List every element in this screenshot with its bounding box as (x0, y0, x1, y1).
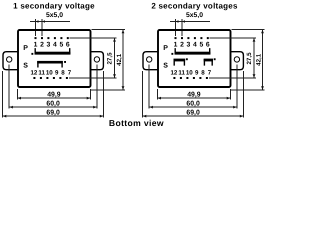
pin numbers 12-7 (right) (170, 69, 211, 76)
svg-text:5: 5 (200, 42, 204, 49)
dimension 42,1 (right) (256, 30, 264, 90)
svg-text:Bottom view: Bottom view (109, 118, 164, 128)
svg-text:60,0: 60,0 (186, 100, 200, 107)
extension line pin row 2 level (left) (69, 77, 117, 79)
pin 2 pad (right) (181, 37, 183, 39)
pin 1 pad (right) (175, 37, 177, 39)
svg-text:2 secondary voltages: 2 secondary voltages (151, 1, 238, 10)
svg-text:3: 3 (47, 42, 51, 49)
pin 7 pad (left) (66, 77, 68, 79)
svg-text:10: 10 (46, 69, 53, 76)
svg-text:49,9: 49,9 (47, 91, 61, 98)
svg-text:S: S (163, 62, 168, 69)
svg-text:69,0: 69,0 (186, 109, 200, 116)
pin 5 pad (left) (60, 37, 62, 39)
dimension 5x5,0 (right) (170, 12, 210, 36)
mounting hole left (right) (147, 57, 152, 62)
extension line pin row 1 level (right) (210, 37, 257, 39)
svg-text:2: 2 (40, 42, 44, 49)
svg-text:12: 12 (170, 69, 177, 76)
svg-text:5x5,0: 5x5,0 (46, 12, 63, 19)
svg-text:5: 5 (60, 42, 64, 49)
dimension 49,9 (right) (157, 91, 230, 99)
extension lines bottom dims (right) (143, 65, 244, 118)
pin numbers 1-6 (left) (34, 42, 70, 49)
svg-text:69,0: 69,0 (46, 109, 60, 116)
svg-text:42,1: 42,1 (256, 53, 263, 66)
extension lines bottom dims (left) (3, 65, 104, 118)
pin 2 pad (left) (41, 37, 43, 39)
pin 12 pad (left) (33, 77, 35, 79)
svg-text:42,1: 42,1 (116, 53, 123, 66)
svg-text:4: 4 (193, 42, 197, 49)
dimension 27,5 (left) (106, 38, 116, 78)
pin 9 pad (left) (53, 77, 55, 79)
svg-text:60,0: 60,0 (46, 100, 60, 107)
svg-text:6: 6 (66, 42, 70, 49)
svg-text:5x5,0: 5x5,0 (186, 12, 203, 19)
secondary S2 polarity dot (right) (214, 58, 216, 60)
mounting ear right (left) (90, 52, 103, 70)
primary winding P bracket pins 1-6 (left) (35, 48, 69, 54)
mounting hole right (left) (94, 57, 99, 62)
pin 8 pad (right) (199, 77, 201, 79)
svg-text:8: 8 (201, 69, 205, 76)
pin numbers 1-6 (right) (174, 42, 210, 49)
svg-text:9: 9 (195, 69, 199, 76)
secondary winding S1 bracket (right) (174, 60, 184, 66)
svg-text:1 secondary voltage: 1 secondary voltage (13, 1, 95, 10)
svg-text:27,5: 27,5 (106, 52, 113, 65)
svg-text:12: 12 (30, 69, 37, 76)
pin 1 pad (left) (35, 37, 37, 39)
primary winding P bracket pins 1-6 (right) (175, 48, 210, 54)
extension line pin row 1 level (left) (70, 37, 117, 39)
svg-text:3: 3 (187, 42, 191, 49)
transformer body outline (left) (18, 30, 91, 87)
dimension 5x5,0 (left) (30, 12, 70, 36)
secondary S1 polarity dot (right) (186, 58, 188, 60)
secondary polarity dot (left) (64, 61, 66, 63)
pin 8 pad (left) (59, 77, 61, 79)
pin 9 pad (right) (193, 77, 195, 79)
svg-text:10: 10 (186, 69, 193, 76)
transformer body outline (right) (158, 30, 231, 87)
svg-text:7: 7 (208, 69, 212, 76)
pin 3 pad (right) (187, 37, 189, 39)
mounting ear right (right) (230, 52, 243, 70)
pin 11 pad (left) (40, 77, 42, 79)
dimension 42,1 (left) (116, 30, 124, 90)
svg-text:4: 4 (53, 42, 57, 49)
secondary winding S bracket (left) (38, 62, 62, 68)
pin 12 pad (right) (173, 77, 175, 79)
svg-text:49,9: 49,9 (187, 91, 201, 98)
pin 6 pad (left) (67, 37, 69, 39)
pin numbers 12-7 (left) (30, 69, 71, 76)
svg-text:11: 11 (38, 69, 45, 76)
dimension 69,0 (right) (143, 109, 244, 117)
svg-text:S: S (23, 62, 28, 69)
svg-text:9: 9 (55, 69, 59, 76)
extension line pin tip level (right) (231, 89, 264, 91)
primary polarity dot (right) (171, 53, 173, 55)
mounting hole left (left) (7, 57, 12, 62)
svg-text:6: 6 (206, 42, 210, 49)
svg-text:11: 11 (178, 69, 185, 76)
extension line body top level (right) (232, 29, 265, 31)
pin 4 pad (right) (194, 37, 196, 39)
secondary winding S2 bracket (right) (204, 60, 212, 66)
svg-text:1: 1 (34, 42, 38, 49)
svg-text:7: 7 (68, 69, 72, 76)
primary polarity dot (left) (31, 53, 33, 55)
mounting ear left (left) (3, 52, 18, 70)
pin 6 pad (right) (207, 37, 209, 39)
svg-text:27,5: 27,5 (246, 52, 253, 65)
extension line pin tip level (left) (91, 89, 125, 91)
mounting hole right (right) (234, 57, 239, 62)
dimension 60,0 (left) (9, 100, 97, 108)
svg-text:2: 2 (180, 42, 184, 49)
svg-text:1: 1 (174, 42, 178, 49)
pin 10 pad (left) (46, 77, 48, 79)
dimension 69,0 (left) (3, 109, 104, 117)
extension line pin row 2 level (right) (209, 77, 256, 79)
pin 7 pad (right) (206, 77, 208, 79)
pin 3 pad (left) (47, 37, 49, 39)
svg-text:P: P (23, 45, 28, 52)
dimension 49,9 (left) (17, 91, 90, 99)
pin 5 pad (right) (200, 37, 202, 39)
pin 4 pad (left) (54, 37, 56, 39)
svg-text:8: 8 (61, 69, 65, 76)
extension line body top level (left) (92, 29, 125, 31)
dimension 60,0 (right) (149, 100, 237, 108)
pin 11 pad (right) (180, 77, 182, 79)
dimension 27,5 (right) (246, 38, 256, 78)
mounting ear left (right) (143, 52, 158, 70)
svg-text:P: P (163, 45, 168, 52)
pin 10 pad (right) (186, 77, 188, 79)
